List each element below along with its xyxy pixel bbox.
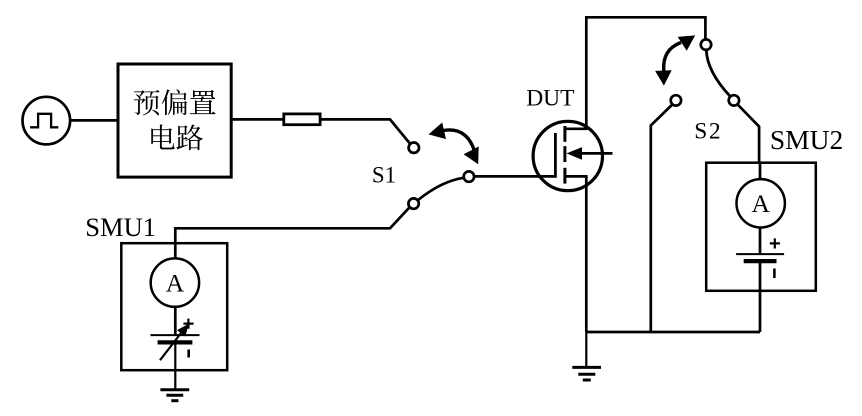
SMU1 minus tick bbox=[187, 350, 190, 358]
label 预偏置 (line 1) bbox=[134, 89, 216, 115]
SMU2 plus sign bbox=[770, 238, 780, 248]
wire MOSFET drain to top rail and S2 pole bbox=[586, 17, 705, 129]
wire pre-bias box to resistor bbox=[231, 118, 283, 121]
wire SMU2 battery to bottom rail bbox=[759, 261, 762, 332]
SMU2 battery negative plate bbox=[744, 259, 777, 263]
wire S1 pole to MOSFET gate bbox=[475, 175, 557, 178]
SMU1 source negative plate bbox=[158, 340, 193, 344]
bottom rail wire bbox=[586, 331, 760, 334]
wire SMU2 box top to ammeter bbox=[759, 163, 762, 179]
svg-text:SMU1: SMU1 bbox=[85, 212, 156, 242]
S1 actuation arrow bbox=[444, 130, 475, 152]
wire junction to ground bbox=[585, 332, 587, 366]
SMU1 box bbox=[121, 243, 227, 370]
ground symbol (DUT source) bbox=[572, 367, 601, 380]
resistor R1 bbox=[284, 114, 320, 125]
label 电路 (line 2) bbox=[151, 124, 203, 150]
SMU2 box bbox=[706, 163, 816, 291]
svg-text:SMU2: SMU2 bbox=[770, 124, 843, 155]
ground symbol (SMU1) bbox=[160, 390, 189, 401]
SMU1 source positive plate bbox=[150, 334, 199, 336]
S1 pole contact bbox=[464, 171, 474, 181]
S2 right throw contact bbox=[729, 95, 739, 105]
S1 blade (pole to lower throw) bbox=[418, 178, 464, 200]
svg-text:A: A bbox=[751, 189, 770, 218]
SMU1 ammeter A1 bbox=[151, 258, 199, 306]
MOSFET channel segment (drain) bbox=[563, 126, 566, 142]
wire SMU1 source to ground bbox=[174, 342, 176, 388]
wire SMU1 box top to ammeter bbox=[174, 243, 177, 258]
MOSFET DUT body circle bbox=[533, 121, 602, 190]
svg-text:S1: S1 bbox=[372, 163, 396, 188]
MOSFET channel segment (source) bbox=[563, 168, 566, 184]
SMU2 ammeter A2 bbox=[737, 179, 785, 227]
wire pulse generator to pre-bias box bbox=[70, 119, 118, 122]
S1 upper throw contact bbox=[409, 143, 419, 153]
MOSFET body arrow bbox=[567, 147, 583, 160]
svg-text:S2: S2 bbox=[694, 119, 722, 145]
SMU2 battery positive plate bbox=[736, 253, 784, 255]
wire ammeter to variable source bbox=[174, 307, 177, 335]
MOSFET source stub bbox=[565, 175, 588, 178]
S2 left throw contact bbox=[671, 95, 681, 105]
S2 pole contact bbox=[701, 39, 711, 49]
SMU1 variable arrow bbox=[160, 331, 183, 361]
wire S2 left throw to bottom rail bbox=[651, 105, 672, 332]
MOSFET body lead bbox=[581, 152, 613, 155]
wire ammeter to battery bbox=[759, 228, 762, 255]
MOSFET drain stub bbox=[565, 127, 588, 130]
S2 blade (pole to right throw) bbox=[706, 50, 730, 97]
MOSFET channel segment (body) bbox=[563, 146, 566, 162]
S2 actuation arrow bbox=[664, 43, 681, 72]
S1 lower throw contact bbox=[408, 198, 418, 208]
pulse generator V1 bbox=[23, 97, 71, 145]
svg-text:A: A bbox=[166, 268, 185, 297]
wire resistor to switch S1 upper throw bbox=[321, 119, 410, 143]
wire S2 right throw to SMU2 bbox=[738, 105, 759, 163]
SMU1 plus sign bbox=[183, 319, 193, 329]
MOSFET gate bar bbox=[554, 133, 557, 178]
SMU2 minus tick bbox=[773, 269, 776, 279]
svg-text:DUT: DUT bbox=[526, 86, 574, 112]
pre-bias circuit block bbox=[118, 64, 231, 177]
wire MOSFET source down to bottom rail bbox=[585, 176, 588, 332]
wire S1 lower throw to SMU1 bbox=[175, 208, 409, 244]
